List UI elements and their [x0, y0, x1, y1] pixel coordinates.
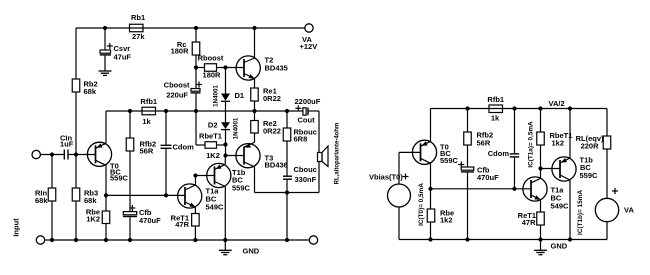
- capacitor Cout 2200uF: [295, 97, 321, 125]
- wire: Re1 to output rail: [254, 101, 256, 111]
- wire: D2 to RbeT1 node: [225, 130, 227, 145]
- svg-text:Cdom: Cdom: [488, 149, 510, 158]
- wire: Rfb2 to Cfb (right): [467, 145, 469, 167]
- wire: rail to Rfb2 (right): [467, 109, 469, 133]
- svg-text:1N4001: 1N4001: [212, 85, 219, 107]
- svg-text:2200uF: 2200uF: [295, 97, 321, 106]
- svg-text:1K2: 1K2: [86, 215, 100, 224]
- svg-text:1k2: 1k2: [440, 216, 453, 225]
- wire: rail to Cdom: [165, 111, 167, 145]
- wire: Rboost to T2 base: [217, 67, 245, 69]
- svg-text:BD436: BD436: [265, 161, 288, 170]
- wire: T3 collector to speaker return: [255, 192, 320, 194]
- node: Cdom bottom junction: [164, 193, 168, 197]
- node: T2 collector junction on supply rail: [252, 26, 256, 30]
- svg-text:RL,altoparlante-4ohm: RL,altoparlante-4ohm: [335, 123, 341, 185]
- svg-text:559C: 559C: [232, 184, 251, 193]
- resistor Rfb1 1k (right): [487, 95, 504, 123]
- capacitor Cboost 220uF: [164, 81, 202, 112]
- node: RbeT1 rail junction (right): [538, 106, 542, 110]
- node: Rbe ground junction (right): [428, 237, 432, 241]
- wire: ReT1 to ground rail (right): [540, 225, 542, 240]
- resistor Rb3 68k: [72, 188, 98, 205]
- node: RIn ground junction: [50, 238, 54, 242]
- resistor RbeT1 1k2 (right): [537, 131, 573, 148]
- svg-text:559C: 559C: [580, 171, 599, 180]
- svg-text:6R8: 6R8: [294, 135, 308, 144]
- transistor T3 BD436: [226, 142, 288, 192]
- svg-text:Rfb1: Rfb1: [487, 95, 504, 104]
- speaker RL altoparlante 4ohm: [318, 123, 341, 193]
- node: Rbouc junction: [285, 109, 289, 113]
- svg-text:27k: 27k: [132, 32, 145, 41]
- svg-text:470uF: 470uF: [477, 173, 499, 182]
- svg-text:Vbias(T0): Vbias(T0): [369, 173, 403, 182]
- svg-text:559C: 559C: [110, 174, 129, 183]
- capacitor Cdom (right): [488, 149, 520, 189]
- node: output node at Re1/Re2: [252, 109, 256, 113]
- terminal input (top): [32, 150, 40, 158]
- svg-text:Rb1: Rb1: [131, 13, 145, 22]
- svg-text:VA: VA: [624, 206, 634, 215]
- node: T3 base / T1b emitter junction: [223, 153, 227, 157]
- wire: rail corner to RL: [606, 109, 608, 137]
- wire: junction to D1: [225, 68, 227, 94]
- svg-text:330nF: 330nF: [295, 175, 317, 184]
- node: Rbe ground junction: [104, 238, 108, 242]
- wire: Vbias to T0 base: [399, 152, 421, 184]
- svg-text:47R: 47R: [175, 220, 189, 229]
- wire: RIn down: [51, 155, 53, 189]
- wire: Rboost node to Cboost: [195, 68, 197, 89]
- svg-text:D1: D1: [235, 91, 245, 100]
- wire: rail to Cdom (right): [514, 109, 516, 154]
- node: ReT1 ground junction: [193, 238, 197, 242]
- capacitor Cfb 470uF (right): [458, 162, 499, 240]
- svg-text:IC(T1b)= 15mA: IC(T1b)= 15mA: [577, 190, 584, 235]
- wire: Rbe to ground rail: [105, 224, 107, 241]
- wire: Cout to speaker corner: [309, 110, 319, 112]
- resistor Rboost: [198, 54, 224, 80]
- wire: Vbias to ground rail: [398, 207, 400, 240]
- terminal VA +12V: [300, 24, 318, 51]
- resistor ReT1 47R (left): [171, 214, 199, 230]
- wire: T0 collector to T1a base (right): [431, 188, 532, 190]
- wire: ReT1 to ground rail: [194, 226, 196, 240]
- node: Rfb2 junction: [128, 109, 132, 113]
- node: Rb3 ground junction: [74, 238, 78, 242]
- transistor T1b BC559C (right): [552, 109, 598, 240]
- node: Rc/Rboost/Cboost junction: [194, 65, 198, 69]
- source VA (right): [595, 188, 634, 222]
- resistor Rb2: [72, 79, 97, 96]
- wire: rail to Rbouc: [286, 111, 288, 128]
- node: speaker return junction: [285, 190, 289, 194]
- svg-text:47uF: 47uF: [114, 53, 132, 62]
- wire: VA source to ground rail: [606, 222, 608, 240]
- svg-text:IC(T1a)= 0,5mA: IC(T1a)= 0,5mA: [527, 121, 534, 168]
- wire: rail to RbeT1 (right): [540, 109, 542, 133]
- wire: rail to Rfb2: [129, 111, 131, 138]
- svg-text:IC(T0)= 0,5mA: IC(T0)= 0,5mA: [418, 183, 425, 226]
- resistor Rb1: [130, 13, 146, 41]
- node: Cfb ground junction (right): [465, 237, 469, 241]
- node: Cdom rail junction (right): [512, 106, 516, 110]
- svg-text:47R: 47R: [522, 218, 536, 227]
- node: ReT1 ground junction (right): [538, 237, 542, 241]
- wire: Rfb2 to Cfb: [129, 151, 131, 212]
- svg-text:68k: 68k: [84, 87, 97, 96]
- wire: Re2 to T3 emitter: [254, 133, 256, 142]
- wire: +12V supply rail: [76, 27, 305, 29]
- wire: rail to Csvr: [104, 28, 106, 50]
- resistor Rc: [171, 40, 200, 56]
- wire: Rb3 down: [75, 155, 77, 189]
- svg-text:GND: GND: [243, 247, 260, 256]
- svg-text:Rfb1: Rfb1: [140, 97, 157, 106]
- svg-text:56R: 56R: [140, 147, 154, 156]
- resistor Re1 0R22: [251, 87, 281, 104]
- svg-text:Cbouc: Cbouc: [294, 165, 317, 174]
- transistor T1a BC549C (right): [523, 169, 569, 213]
- wire: speaker drop: [318, 111, 320, 153]
- node: T1b emitter rail junction (right): [568, 106, 572, 110]
- diode D1 1N4001: [212, 85, 244, 107]
- resistor Rfb1 (left): [140, 97, 157, 126]
- svg-text:Cboost: Cboost: [164, 81, 190, 90]
- svg-text:1uF: 1uF: [60, 139, 74, 148]
- capacitor Cbouc 330nF: [283, 165, 317, 193]
- resistor Re2 0R22: [251, 119, 281, 136]
- svg-text:D2: D2: [208, 121, 218, 130]
- node: Rbe junction (right): [428, 187, 432, 191]
- node: D1 anode junction: [223, 65, 227, 69]
- node: T1b base junction (right): [538, 166, 542, 170]
- svg-text:1k2: 1k2: [552, 139, 565, 148]
- wire: output rail to Re2: [254, 111, 256, 121]
- svg-text:0R22: 0R22: [263, 127, 281, 136]
- node: Rc junction on supply rail: [194, 26, 198, 30]
- wire: RbeT1 left lead: [196, 144, 205, 146]
- transistor T0 BC559C (right): [412, 140, 458, 189]
- wire: input terminal to Cin: [40, 154, 64, 156]
- resistor Rbe 1k2 (right): [427, 209, 454, 225]
- resistor Rfb2 56R (right): [464, 131, 493, 148]
- svg-text:1k: 1k: [142, 117, 151, 126]
- transistor T1a BC549C (left): [178, 176, 224, 214]
- wire: Rbe down (right): [430, 189, 432, 209]
- wire: supply rail to Rb2: [75, 28, 77, 79]
- svg-text:180R: 180R: [171, 47, 190, 56]
- wire: Rc to Rboost node: [195, 55, 197, 68]
- wire: node to Rboost: [196, 67, 205, 69]
- wire: Rbe down: [105, 195, 107, 211]
- resistor RL(eqv) 220R: [576, 134, 611, 151]
- wire: Rb3 to ground rail: [75, 201, 77, 240]
- resistor RbeT1 1K2 (left): [199, 132, 222, 161]
- svg-text:220R: 220R: [581, 142, 600, 151]
- wire: ground rail (left circuit): [45, 239, 310, 241]
- wire: rail to RbeT1: [195, 111, 197, 145]
- transistor T2 BD435: [236, 28, 288, 88]
- source Vbias(T0): [369, 173, 411, 208]
- capacitor Cdom (left): [161, 143, 195, 196]
- ground GND (right): [534, 240, 568, 255]
- terminal output ground: [309, 236, 317, 244]
- svg-text:549C: 549C: [551, 202, 570, 211]
- svg-text:BD435: BD435: [265, 64, 288, 73]
- svg-text:1K2: 1K2: [206, 151, 220, 160]
- resistor Rbe 1K2 (left): [86, 208, 110, 224]
- wire: D1 to D2: [225, 101, 227, 122]
- svg-text:68k: 68k: [35, 196, 48, 205]
- node: Csvr junction on supply rail: [103, 26, 107, 30]
- node: RbeT1/diode junction: [223, 142, 227, 146]
- wire: Rbe to ground rail (right): [430, 222, 432, 240]
- transistor T1b BC559C (left): [207, 156, 251, 241]
- node: Cfb ground junction: [128, 238, 132, 242]
- capacitor Cfb 470uF (left): [123, 205, 161, 240]
- node: Cdom junction: [164, 109, 168, 113]
- svg-text:220uF: 220uF: [166, 91, 188, 100]
- capacitor Csvr 47uF: [100, 43, 132, 71]
- resistor Rbouc 6R8: [283, 128, 317, 144]
- svg-text:180R: 180R: [203, 71, 222, 80]
- wire: Cin to T0 base: [68, 154, 96, 156]
- svg-text:56R: 56R: [477, 139, 491, 148]
- svg-text:Input: Input: [12, 218, 21, 237]
- svg-text:VA/2: VA/2: [549, 99, 565, 108]
- svg-text:Cdom: Cdom: [173, 143, 195, 152]
- resistor Rfb2 56R (left): [126, 138, 156, 156]
- svg-text:RbeT1: RbeT1: [199, 132, 222, 141]
- svg-text:+12V: +12V: [300, 42, 318, 51]
- wire: RIn to ground rail: [51, 201, 53, 240]
- svg-text:GND: GND: [551, 242, 568, 251]
- wire: VA/2 rail (right): [431, 108, 608, 110]
- wire: ground rail (right circuit): [399, 239, 607, 241]
- svg-text:559C: 559C: [440, 156, 459, 165]
- svg-text:Cout: Cout: [298, 116, 316, 125]
- svg-text:549C: 549C: [206, 203, 225, 212]
- resistor RIn 68k: [35, 188, 56, 205]
- wire: T1a collector node to T1b base: [196, 175, 215, 177]
- transistor T0 BC559C (left): [87, 111, 128, 195]
- ground GND (left): [219, 240, 260, 256]
- wire: RL to VA source: [606, 149, 608, 199]
- wire: output-feedback rail: [106, 110, 303, 112]
- node: Cboost/RbeT1 junction: [194, 109, 198, 113]
- node: T1b collector ground junction (right): [568, 237, 572, 241]
- svg-text:Rboost: Rboost: [198, 54, 224, 63]
- node: Cdom bottom junction (right): [512, 187, 516, 191]
- svg-text:470uF: 470uF: [139, 216, 161, 225]
- svg-text:0R22: 0R22: [263, 94, 281, 103]
- wire: Rbouc to Cbouc: [286, 141, 288, 176]
- node: Rbe junction: [104, 193, 108, 197]
- wire: RbeT1 node to T3 base node: [225, 145, 227, 156]
- svg-text:1N4001: 1N4001: [233, 117, 240, 139]
- wire: RbeT1 to diode chain: [217, 144, 226, 146]
- node: T1b collector ground junction: [223, 238, 227, 242]
- wire: return junction to ground rail: [286, 193, 288, 241]
- svg-text:1k: 1k: [491, 114, 500, 123]
- wire: Rb2 to T0 base node: [75, 92, 77, 155]
- node: Rb2/Rb3/T0-base junction: [74, 152, 78, 156]
- wire: RbeT1 to T1b base node: [540, 145, 542, 169]
- svg-text:68k: 68k: [84, 196, 97, 205]
- node: speaker return ground junction: [285, 238, 289, 242]
- node: T1b base junction: [193, 173, 197, 177]
- node: RIn junction: [50, 152, 54, 156]
- wire: T0 collector to T1a base: [106, 194, 185, 196]
- ground (Csvr): [99, 70, 112, 72]
- terminal input (bottom): [36, 236, 44, 244]
- wire: rail corner to T0 emitter: [430, 109, 432, 142]
- node: Rfb2 rail junction (right): [465, 106, 469, 110]
- capacitor CIn 1uF: [60, 133, 74, 159]
- resistor ReT1 47R (right): [518, 211, 545, 227]
- wire: T1b base wire (right): [541, 168, 561, 170]
- diode D2 1N4001: [208, 117, 240, 139]
- wire: rail to Rc: [195, 28, 197, 42]
